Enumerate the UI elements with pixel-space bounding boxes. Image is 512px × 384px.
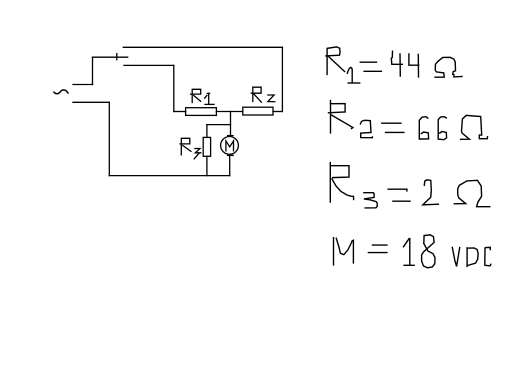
label R2 letter R [251, 87, 261, 101]
text line3 digit 2 [423, 180, 439, 205]
label R1 letter R [191, 89, 201, 102]
text line2 subscript 2 [360, 120, 372, 137]
wire R2 right [273, 111, 282, 113]
meter bottom tick [228, 154, 234, 156]
text line4 digit 1 [404, 239, 410, 265]
wire upper terminal horizontal [73, 84, 93, 86]
wire upper vertical [92, 57, 94, 84]
text line2 digit 6 [419, 117, 428, 139]
resistor R3 [203, 137, 210, 156]
text line1 R [326, 47, 340, 75]
text line1 subscript 1 [347, 67, 352, 82]
text line4 V [452, 247, 459, 266]
wire top rail [123, 46, 282, 48]
meter M circle [221, 137, 239, 155]
wire switch output [124, 64, 174, 66]
text line4 C [485, 247, 491, 265]
text line4 digit 8 [422, 235, 435, 268]
text line2 omega [461, 115, 488, 139]
resistor R1 [186, 108, 217, 116]
switch contact tick [116, 54, 118, 60]
text line3 subscript 3 [364, 193, 377, 208]
text line2 R [330, 101, 332, 133]
wire switch input [93, 56, 128, 58]
text line4 D [466, 248, 468, 267]
wire R1 to R2 [216, 111, 242, 113]
text line1 omega [435, 57, 462, 77]
label R1 subscript 1 [205, 95, 207, 98]
label R2 leg [254, 94, 262, 102]
label R1 leg [194, 96, 201, 102]
label R2 subscript z [268, 95, 275, 102]
text line3 R [330, 162, 349, 202]
wire right vertical [281, 47, 283, 111]
text line4 M [333, 238, 335, 265]
text line1 digit 4 second [409, 54, 419, 65]
wire junction vertical to meter [230, 112, 232, 137]
wire below meter [229, 155, 231, 175]
wire bottom rail [109, 175, 229, 177]
text line1 R leg [329, 57, 345, 72]
text line2 R leg [331, 115, 353, 129]
text line2 equals [382, 122, 401, 124]
AC source tilde [54, 90, 68, 94]
label R3 letter R [180, 138, 190, 155]
label R3 subscript 3 [195, 149, 201, 153]
meter letter M [226, 141, 234, 151]
wire below R3 [206, 156, 208, 175]
resistor R2 [243, 107, 273, 115]
text line3 R leg [332, 179, 354, 200]
wire branch vertical to R3 [206, 125, 208, 138]
wire left vertical [108, 102, 110, 175]
text line4 equals [373, 244, 387, 246]
wire branch horizontal [207, 124, 231, 126]
text line3 equals [388, 189, 407, 191]
text line1 digit 4 [391, 51, 402, 64]
wire lower terminal horizontal [73, 101, 109, 103]
text line2 digit 6 second [438, 117, 446, 140]
label R3 leg [183, 146, 191, 152]
meter top tick [228, 135, 233, 137]
wire R1 left [174, 111, 186, 113]
text line3 omega [454, 180, 490, 206]
wire left branch vertical [173, 65, 175, 111]
text line1 equals [360, 61, 376, 63]
